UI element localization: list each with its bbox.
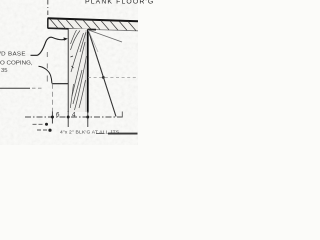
label: WD BASE (clipped at left) [0, 51, 26, 57]
hatch (diagonal marks in floor slab) [50, 19, 136, 31]
extension tick at x=52.4 [51, 112, 54, 124]
fan break line (long steep diagonal) [88, 30, 116, 117]
label: dimension value 6 [56, 112, 60, 118]
label: dimension value 4 [72, 112, 76, 118]
leader arrow to post (from WD BASE text) [31, 37, 68, 55]
extension tick at x=68.2 [67, 111, 70, 127]
centerline (vertical dash-dot above floor) [47, 0, 49, 19]
label: 35 [1, 68, 8, 74]
label: O COPING [0, 60, 33, 66]
wood grain inside post [70, 30, 86, 110]
knot marks [71, 56, 74, 68]
label: bottom caption [60, 130, 119, 135]
centerline continuation below floor (dashed) [46, 52, 48, 82]
extension tick at x=87.8 [86, 111, 89, 127]
caption mid marks [96, 133, 104, 135]
hidden dash line right of post [88, 76, 138, 78]
left datum line [0, 87, 44, 89]
label: PLANK FLOOR'G [85, 0, 154, 5]
dimension line [25, 116, 122, 118]
paper noise texture [0, 0, 138, 145]
coping trim: vertical extension line [51, 84, 53, 112]
coping trim: horizontal top line [52, 83, 68, 85]
lower-left dash-dot segment B [37, 129, 52, 132]
leader arc to coping corner (from O COPING text) [39, 66, 52, 83]
wood post (vertical member in section) [68, 29, 88, 113]
fan break line (shallow faint diagonal) [89, 30, 123, 42]
crossing blob where diagonal meets dash line [102, 76, 105, 79]
fan break line (short faint) [88, 30, 98, 52]
lower-left dash-dot segment A [33, 123, 49, 126]
caption dark bar at right [108, 133, 138, 135]
plank floor slab (section band) [48, 18, 138, 31]
right end tick of dimension line [121, 112, 123, 118]
